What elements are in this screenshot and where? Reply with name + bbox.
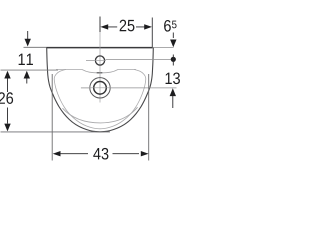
dim 11 text <box>19 54 33 65</box>
centerline tick top <box>99 17 101 33</box>
washbasin outer contour <box>47 48 154 132</box>
dim 13 stem <box>172 96 174 108</box>
dim 13 text <box>166 72 180 84</box>
dim 25 right extension <box>151 18 153 48</box>
tap crosshair horizontal <box>94 59 106 61</box>
dim 13 dot tick <box>172 55 174 66</box>
dim 25 text <box>120 20 135 32</box>
tap hole left dash <box>86 60 94 62</box>
dim 26 upper stem <box>7 78 9 92</box>
dim 6.5 text <box>164 20 171 32</box>
dim 43 line <box>60 153 139 155</box>
dim 43 left arrow <box>53 151 61 156</box>
dim 43 left tick <box>51 74 53 161</box>
dim 25 line <box>108 26 145 28</box>
bowl floor arc <box>63 107 138 123</box>
dim 11 bottom ref line <box>1 69 59 71</box>
dim 11 up arrow stem <box>26 78 28 83</box>
drain crosshair left <box>81 87 89 89</box>
dim 26 text <box>0 92 13 104</box>
dim 13 dot <box>171 57 176 62</box>
drain outer circle <box>90 78 110 98</box>
dim 43 right arrow <box>141 151 149 156</box>
dim 11 down arrow <box>25 39 31 47</box>
dim 13 up arrow <box>170 88 176 96</box>
dim 25 right arrow <box>144 24 152 29</box>
dim 25 left arrow <box>100 24 108 29</box>
dim 43 text <box>93 148 108 160</box>
drain crosshair right <box>111 87 177 89</box>
washbasin top edge <box>47 47 153 49</box>
dim 26 lower stem <box>7 108 9 124</box>
top edge extension left <box>24 46 47 48</box>
dim 26 down arrow <box>4 124 10 132</box>
vertical centerline <box>99 32 101 103</box>
top edge extension right <box>153 47 174 49</box>
overflow dash <box>97 72 103 74</box>
drain inner circle <box>94 82 107 95</box>
tap centerline to right <box>106 58 171 60</box>
drain crosshair horizontal <box>89 87 111 89</box>
dim 11 stem <box>27 31 29 40</box>
dim 6.5 stem <box>172 33 174 39</box>
dim 26 bottom ref line <box>1 131 111 133</box>
inner rim top line <box>56 70 136 73</box>
dim 26 up arrow <box>4 71 10 79</box>
dim 11 up arrow <box>24 71 30 79</box>
washbasin inner rim contour <box>54 69 146 128</box>
dim 6.5 down arrow <box>170 40 176 48</box>
tap hole U1 <box>95 56 104 65</box>
dim 43 right tick <box>148 74 150 161</box>
